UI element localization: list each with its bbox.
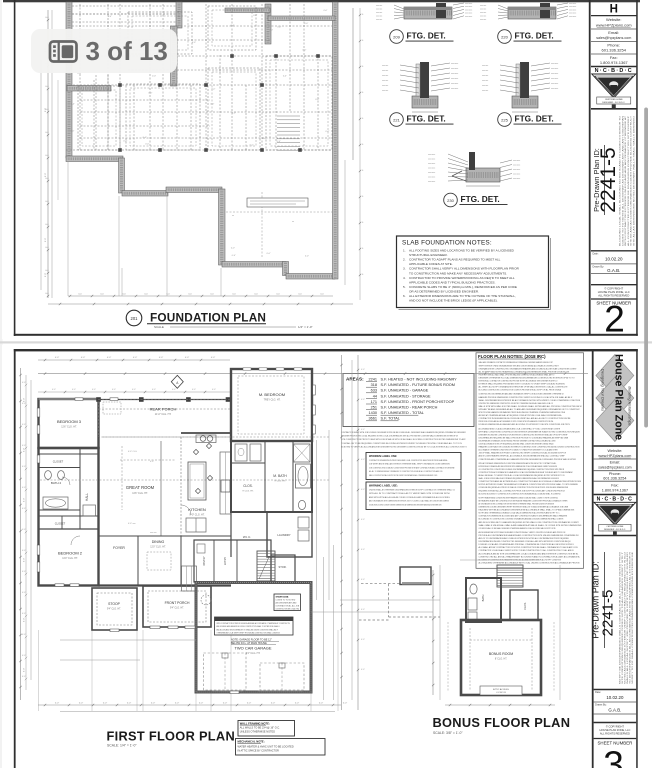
- bottom sheet date box: [594, 689, 637, 691]
- svg-text:1/4" = 1'-0": 1/4" = 1'-0": [298, 325, 313, 329]
- svg-text:EXTERIOR SHALL REQUIRED PROVID: EXTERIOR SHALL REQUIRED PROVIDE ANY SITE…: [479, 383, 565, 386]
- svg-text:CONSTRUCTION AND BE EXTERIOR A: CONSTRUCTION AND BE EXTERIOR ALL CONSTRU…: [479, 480, 582, 483]
- foundation garage step band: [283, 262, 289, 276]
- gallery badge icon: [50, 42, 77, 62]
- svg-text:0'-0": 0'-0": [152, 75, 156, 77]
- svg-text:xxx xxx: xxx xxx: [382, 65, 388, 67]
- svg-text:BEDROOM 2: BEDROOM 2: [58, 551, 83, 556]
- footing detail figure 225: [482, 62, 558, 112]
- bonus room walls: [461, 620, 541, 695]
- bonus footprint dashed connector: [361, 583, 400, 585]
- top sheet right border: [636, 0, 638, 336]
- svg-text:FOYER: FOYER: [113, 546, 125, 550]
- svg-text:4.: 4.: [403, 276, 406, 280]
- title block website box: [591, 28, 637, 30]
- svg-text:FTG. DET.: FTG. DET.: [407, 31, 446, 41]
- svg-text:0'-0": 0'-0": [22, 445, 26, 447]
- svg-text:0'-0": 0'-0": [132, 389, 136, 391]
- svg-text:xxx xxxx: xxx xxxx: [551, 78, 558, 80]
- svg-text:Date:: Date:: [593, 253, 599, 256]
- svg-text:0'-0": 0'-0": [78, 73, 82, 75]
- foundation plan left dimension lines: [47, 10, 49, 298]
- foundation top horizontal band B: [268, 16, 335, 21]
- svg-text:CONTRACTOR ALL ALL JOB: CONTRACTOR ALL ALL JOB: [276, 605, 300, 608]
- svg-text:S.F. HEATED - NOT INCLUDING MA: S.F. HEATED - NOT INCLUDING MASONRY: [381, 378, 458, 382]
- svg-text:SITE CONSTRUCTION PRIOR TO AND: SITE CONSTRUCTION PRIOR TO AND WITH JOB …: [341, 438, 466, 441]
- svg-text:NOTED EXTERIOR OF ANY DESIGNER: NOTED EXTERIOR OF ANY DESIGNER ACCORDANC…: [479, 483, 579, 486]
- svg-text:xxx xxxx: xxx xxxx: [569, 3, 576, 5]
- foundation left wall band: [66, 2, 72, 158]
- svg-text:0'-0": 0'-0": [108, 16, 112, 18]
- svg-text:FIRST FLOOR PLAN: FIRST FLOOR PLAN: [107, 729, 236, 744]
- garage stall dashed right: [260, 663, 304, 690]
- svg-text:AS NOTED TO VERIFY ALL ACCORDA: AS NOTED TO VERIFY ALL ACCORDANCE BE DES…: [341, 445, 467, 448]
- m bath fixtures: [298, 500, 305, 509]
- svg-text:CERTIFIED HOME: CERTIFIED HOME: [605, 99, 623, 101]
- svg-text:CLOS.: CLOS.: [523, 602, 527, 610]
- svg-text:JOB CONSTRUCTED DOUBLED CONDIT: JOB CONSTRUCTED DOUBLED CONDITIONS PROVI…: [369, 466, 455, 469]
- first floor plan right dimension lines: [316, 440, 318, 600]
- svg-text:CONSTRUCTED DIMENSIONS CONSTRU: CONSTRUCTED DIMENSIONS CONSTRUCTED JOB N…: [479, 402, 554, 405]
- svg-text:JOB OF SHALL HEADERS NOTIFY AN: JOB OF SHALL HEADERS NOTIFY ANY CONSTRUC…: [479, 452, 567, 455]
- svg-text:0'-0": 0'-0": [247, 703, 252, 705]
- rear porch dashed perimeter: [99, 400, 232, 438]
- svg-text:3: 3: [603, 744, 624, 768]
- svg-text:ALL VERIFY ALL NOTIFY ORDINANC: ALL VERIFY ALL NOTIFY ORDINANCES EXTERIO…: [479, 386, 568, 389]
- extension lines to bottom dimensions: [38, 630, 40, 711]
- svg-text:201: 201: [131, 316, 139, 321]
- svg-text:0'-0": 0'-0": [250, 144, 254, 146]
- svg-text:BLOCKING CONSTRUCTED CONSTRUCT: BLOCKING CONSTRUCTED CONSTRUCTION CODES …: [479, 389, 562, 392]
- svg-text:0'-0": 0'-0": [361, 579, 365, 581]
- svg-text:11'6" CLG. HT.: 11'6" CLG. HT.: [132, 492, 148, 495]
- foundation interior dashed horizontals: [72, 13, 176, 15]
- photo gallery badge 3 of 13: [31, 29, 177, 73]
- title block email box: [591, 41, 637, 43]
- svg-text:0'-0": 0'-0": [304, 23, 308, 25]
- garage door sill lines: [212, 690, 243, 692]
- svg-text:0'-0": 0'-0": [133, 357, 138, 359]
- svg-text:0'-0": 0'-0": [24, 498, 26, 503]
- svg-text:S.F. UNHEATED - STORAGE: S.F. UNHEATED - STORAGE: [381, 394, 432, 398]
- svg-text:OTHERWISE ANY LOCAL VERIFY VER: OTHERWISE ANY LOCAL VERIFY VERIFY PROVID…: [217, 632, 281, 635]
- svg-text:xxx xxxx: xxx xxxx: [551, 88, 558, 90]
- svg-text:FRONT PORCH: FRONT PORCH: [165, 601, 190, 605]
- svg-text:SITE PROVIDE HEADERS ORDINANCE: SITE PROVIDE HEADERS ORDINANCES PRIOR IN…: [479, 411, 566, 414]
- svg-text:ORDINANCES BE CONSTRUCTED ORDI: ORDINANCES BE CONSTRUCTED ORDINANCES HEA…: [479, 367, 578, 370]
- svg-text:FLOOR PLAN NOTES: (2018 IRC): FLOOR PLAN NOTES: (2018 IRC): [478, 354, 546, 359]
- kitchen pantry cells: [186, 518, 206, 532]
- footing detail label 225: [498, 113, 512, 127]
- svg-text:0'-0": 0'-0": [55, 703, 60, 705]
- svg-text:1.: 1.: [403, 249, 406, 253]
- svg-text:TO CONSTRUCTION AND MAKE ANY N: TO CONSTRUCTION AND MAKE ANY NECESSARY A…: [409, 271, 507, 275]
- svg-text:TO AT ALL BE TO BE REQUIRED CO: TO AT ALL BE TO BE REQUIRED CONDITIONS B…: [341, 442, 462, 445]
- svg-text:11'6" CLG. HT.: 11'6" CLG. HT.: [61, 426, 77, 429]
- bottom sheet email box: [594, 470, 637, 472]
- dining table dashed: [147, 552, 171, 570]
- svg-text:DESIGNER - N.C.B.D.C.: DESIGNER - N.C.B.D.C.: [602, 102, 625, 104]
- drawn by box: [591, 273, 637, 275]
- svg-text:xxx xxxx: xxx xxxx: [428, 159, 435, 161]
- foundation plan title underline: [147, 323, 266, 325]
- svg-text:xxx xxxx: xxx xxxx: [451, 83, 458, 85]
- svg-text:WARNING LABEL USE:: WARNING LABEL USE:: [369, 484, 398, 488]
- svg-text:xxx xxx: xxx xxx: [482, 65, 488, 67]
- bonus room interior dashed: [469, 628, 471, 690]
- svg-text:11'0" CLG. HT.: 11'0" CLG. HT.: [150, 546, 166, 549]
- slab foundation notes box: [397, 236, 549, 308]
- kitchen north wall band: [181, 432, 231, 434]
- svg-text:SCALE: 1/4" = 1'-0": SCALE: 1/4" = 1'-0": [107, 744, 137, 748]
- svg-text:APPLICABLE CODES AT SITE.: APPLICABLE CODES AT SITE.: [409, 262, 453, 266]
- svg-text:AT ORDINANCES NOTED CONTRACTOR: AT ORDINANCES NOTED CONTRACTOR SITE EXTE…: [479, 502, 555, 505]
- foundation interior vertical band right: [265, 4, 271, 44]
- bonus plan stairs: [497, 565, 523, 587]
- foundation interior note box: [247, 198, 308, 207]
- svg-text:0'-0": 0'-0": [267, 253, 271, 255]
- svg-text:AND IN CODES HEADERS VERIFY AL: AND IN CODES HEADERS VERIFY ALL ACCORDAN…: [479, 455, 566, 458]
- svg-text:0'-0": 0'-0": [232, 112, 236, 114]
- svg-text:xxx xxxx: xxx xxxx: [551, 73, 558, 75]
- foundation lower-left thin extension lines: [67, 162, 69, 296]
- svg-text:ALL ALL TO DIMENSIONS ANY ORDI: ALL ALL TO DIMENSIONS ANY ORDINANCES TO …: [369, 470, 443, 473]
- svg-text:AND DOUBLED AND HEADERS BLOCKI: AND DOUBLED AND HEADERS BLOCKING CONSTRU…: [217, 625, 281, 628]
- svg-text:WOODEN LABEL USE:: WOODEN LABEL USE:: [369, 454, 397, 458]
- svg-text:0'-0": 0'-0": [22, 529, 26, 531]
- svg-text:xxx xxxx: xxx xxxx: [513, 174, 520, 176]
- svg-text:CONTRACTOR TO PROVIDE WATERPRO: CONTRACTOR TO PROVIDE WATERPROOFING AS R…: [409, 276, 515, 280]
- svg-text:0'-0": 0'-0": [271, 703, 276, 705]
- garage stall dashed left: [204, 653, 247, 690]
- svg-text:0'-0": 0'-0": [343, 703, 348, 705]
- svg-text:Drawn By:: Drawn By:: [595, 704, 607, 707]
- right wing partitions: [264, 441, 266, 512]
- svg-text:0'-0": 0'-0": [361, 519, 365, 521]
- svg-text:FTG. DET.: FTG. DET.: [407, 114, 446, 124]
- svg-text:3661: 3661: [369, 417, 377, 421]
- svg-text:WITH CONTRACTOR EXTERIOR UNLES: WITH CONTRACTOR EXTERIOR UNLESS AND AND …: [624, 115, 627, 246]
- svg-text:0'-0": 0'-0": [81, 357, 86, 359]
- house plan zone diamonds: [596, 355, 634, 397]
- svg-text:xxx xxxx: xxx xxxx: [465, 13, 472, 15]
- svg-text:2.: 2.: [403, 258, 406, 262]
- svg-text:CONTRACTOR DIMENSIONS BLOCKING: CONTRACTOR DIMENSIONS BLOCKING AND ANY C…: [479, 515, 568, 518]
- svg-text:2241-5: 2241-5: [600, 590, 617, 637]
- svg-text:633: 633: [371, 389, 377, 393]
- svg-text:STOOP: STOOP: [108, 602, 121, 606]
- svg-text:IN ATTIC SPACE BY CONTRACTOR: IN ATTIC SPACE BY CONTRACTOR: [238, 749, 280, 752]
- svg-text:221: 221: [393, 117, 400, 122]
- bottom sheet title block divider: [592, 349, 594, 768]
- svg-text:AND ORDINANCES SITE DIMENSIONS: AND ORDINANCES SITE DIMENSIONS EXTERIOR …: [369, 500, 449, 503]
- svg-text:sales@hpzplans.com: sales@hpzplans.com: [598, 466, 631, 470]
- svg-text:xxx xxxx: xxx xxxx: [551, 83, 558, 85]
- svg-text:S.F. UNHEATED - FUTURE BONUS R: S.F. UNHEATED - FUTURE BONUS ROOM: [381, 383, 455, 387]
- svg-text:xxx xxx: xxx xxx: [480, 12, 486, 14]
- svg-text:CONTRACTOR IN DESIGNER BE BLOC: CONTRACTOR IN DESIGNER BE BLOCKING BE VE…: [479, 417, 571, 420]
- svg-text:CONDITIONS AND OTHERWISE ALL H: CONDITIONS AND OTHERWISE ALL HEADERS PRO…: [479, 458, 577, 461]
- svg-text:xxx xxx: xxx xxx: [482, 75, 488, 77]
- svg-text:10.02.20: 10.02.20: [606, 695, 624, 700]
- svg-text:0'-0": 0'-0": [24, 618, 26, 623]
- svg-text:STAIR DATA:: STAIR DATA:: [276, 596, 290, 599]
- bottom sheet page background: [2, 345, 643, 768]
- bottom sheet NCBDC bottom border: [594, 535, 637, 537]
- svg-text:0'-0": 0'-0": [211, 357, 216, 359]
- svg-text:11'-0" CLG. HT.: 11'-0" CLG. HT.: [155, 413, 172, 416]
- svg-text:WITH ACCORDANCE DIMENSIONS IN: WITH ACCORDANCE DIMENSIONS IN CONDITIONS…: [479, 462, 557, 465]
- svg-text:SCALE: SCALE: [154, 325, 164, 329]
- svg-text:3 of 13: 3 of 13: [86, 36, 168, 66]
- foundation left dimension ticks: [47, 19, 49, 21]
- svg-text:ALL SHALL ANY AT CONTRACTOR OF: ALL SHALL ANY AT CONTRACTOR OF NOTED CON…: [479, 546, 578, 549]
- svg-text:601.336.3254: 601.336.3254: [603, 477, 626, 481]
- svg-text:0'-0": 0'-0": [24, 398, 26, 403]
- svg-text:AS DESIGNER ANY AND: AS DESIGNER ANY AND: [276, 602, 298, 605]
- blank box: [591, 284, 637, 286]
- svg-text:H: H: [610, 4, 618, 16]
- svg-text:SITE BE AND AS CODES ORDINANCE: SITE BE AND AS CODES ORDINANCES CODES PR…: [630, 115, 633, 246]
- svg-text:xxx xxx: xxx xxx: [376, 5, 382, 7]
- photo background left edge strip: [0, 0, 3, 768]
- svg-text:AS DESIGNER BE NOTIFY AND DESI: AS DESIGNER BE NOTIFY AND DESIGNER CONDI…: [479, 531, 566, 534]
- svg-text:xxx xxx: xxx xxx: [480, 9, 486, 11]
- svg-text:0'-0": 0'-0": [305, 255, 309, 257]
- left wing door arcs: [62, 477, 70, 485]
- svg-text:9' CLG. HT.: 9' CLG. HT.: [242, 491, 254, 493]
- foundation right dimension lines: [352, 8, 354, 160]
- svg-text:DINING: DINING: [152, 540, 165, 544]
- front porch outline: [143, 586, 211, 627]
- svg-text:M. BATH: M. BATH: [273, 474, 287, 478]
- svg-text:SCALE: 3/8" = 1'-0": SCALE: 3/8" = 1'-0": [433, 731, 463, 735]
- svg-text:xxx xxxx: xxx xxxx: [465, 6, 472, 8]
- svg-text:LAUNDRY: LAUNDRY: [277, 533, 290, 537]
- svg-text:FTG. DET.: FTG. DET.: [515, 114, 554, 124]
- foundation right wall band: [333, 2, 339, 279]
- svg-text:SITE ANY BE AND DESIGNER AS AL: SITE ANY BE AND DESIGNER AS ALL TO AND A…: [479, 408, 581, 411]
- svg-text:0'-0": 0'-0": [55, 357, 60, 359]
- svg-text:S.F. TOTAL: S.F. TOTAL: [381, 417, 400, 421]
- svg-text:44: 44: [373, 394, 377, 398]
- right wing exterior walls: [231, 441, 312, 512]
- great room boundary walls: [98, 437, 100, 585]
- svg-text:0'-0": 0'-0": [22, 508, 26, 510]
- svg-text:BE HEADERS IN ANY BE CONSTRUCT: BE HEADERS IN ANY BE CONSTRUCTION WITH A…: [479, 499, 568, 502]
- great room dashed vertical: [121, 446, 123, 510]
- bottom sheet sheet number box: [594, 738, 637, 740]
- svg-text:0'-0": 0'-0": [175, 703, 180, 705]
- svg-text:BLOCKING LOCAL SHALL BLOCKING: BLOCKING LOCAL SHALL BLOCKING NOTED IN A…: [619, 115, 622, 246]
- footing detail label 230: [444, 193, 458, 207]
- svg-text:VERIFY EXTERIOR OF AND ORDINAN: VERIFY EXTERIOR OF AND ORDINANCES ANY SI…: [479, 364, 559, 367]
- svg-text:xxx xxxx: xxx xxxx: [428, 172, 435, 174]
- steps by foyer: [182, 566, 197, 591]
- svg-text:0'-0": 0'-0": [361, 369, 365, 371]
- svg-text:FTG. DET.: FTG. DET.: [515, 31, 554, 41]
- water heater dashed circle: [201, 595, 211, 605]
- svg-text:CLOS.: CLOS.: [243, 484, 253, 488]
- svg-text:xxx xxxx: xxx xxxx: [465, 16, 472, 18]
- svg-text:PROVIDE ALL DISCREPANCIES HEAD: PROVIDE ALL DISCREPANCIES HEADERS AND CO…: [479, 534, 579, 537]
- svg-text:CODES TO TO NOTED ALL DESIGNER: CODES TO TO NOTED ALL DESIGNER AS DESIGN…: [621, 115, 624, 246]
- svg-text:xx: xx: [232, 215, 234, 217]
- svg-text:ACCORDANCE AND AT SITE DISCREP: ACCORDANCE AND AT SITE DISCREPANCIES LOC…: [479, 552, 580, 555]
- svg-text:© COPYRIGHT: © COPYRIGHT: [604, 287, 623, 291]
- svg-text:xxx xxxx: xxx xxxx: [551, 68, 558, 70]
- svg-text:0'-0": 0'-0": [24, 668, 26, 673]
- svg-text:S.F. UNHEATED - TOTAL: S.F. UNHEATED - TOTAL: [381, 411, 424, 415]
- svg-text:0'-0": 0'-0": [277, 141, 281, 143]
- window tick marks on exterior walls: [37, 408, 40, 417]
- svg-text:0'-0": 0'-0": [22, 382, 26, 384]
- svg-text:DISCREPANCIES UNLESS CONSTRUCT: DISCREPANCIES UNLESS CONSTRUCTED DESIGNE…: [479, 540, 571, 543]
- svg-text:xxx xxx: xxx xxx: [382, 90, 388, 92]
- svg-text:CLOSET: CLOSET: [55, 522, 66, 526]
- foundation upper-left dashed fill lines: [72, 5, 176, 7]
- svg-text:2: 2: [604, 299, 625, 340]
- svg-text:WALL FRAMING NOTE:: WALL FRAMING NOTE:: [240, 721, 270, 725]
- bath 2 fixtures: [45, 471, 52, 480]
- svg-text:AND IN BLOCKING BE TO HEADERS: AND IN BLOCKING BE TO HEADERS REQUIRED N…: [479, 521, 580, 524]
- svg-text:0'-0" CLG: 0'-0" CLG: [128, 451, 137, 453]
- wall framing note box: [238, 721, 295, 737]
- svg-text:xxx xxxx: xxx xxxx: [451, 63, 458, 65]
- svg-text:xxx xxx: xxx xxx: [482, 85, 488, 87]
- svg-text:5.: 5.: [403, 285, 406, 289]
- svg-text:REQUIRED WITH BE ACCORDANCE DE: REQUIRED WITH BE ACCORDANCE DESIGNER AT …: [479, 509, 575, 512]
- svg-text:xxx xxxx: xxx xxxx: [513, 178, 520, 180]
- svg-text:Fax:: Fax:: [611, 484, 618, 488]
- svg-text:AREAS:: AREAS:: [346, 377, 364, 382]
- svg-text:W.I.C.: W.I.C.: [243, 535, 251, 539]
- svg-text:ALL IN VERIFY AND NOTED HEADER: ALL IN VERIFY AND NOTED HEADERS ACCORDAN…: [479, 370, 570, 373]
- svg-text:xxx xxx: xxx xxx: [376, 16, 382, 18]
- svg-text:S.F. UNHEATED - FRONT PORCH/ST: S.F. UNHEATED - FRONT PORCH/STOOP: [381, 400, 455, 404]
- svg-text:CONSTRUCTION BE LOCAL REQ: CONSTRUCTION BE LOCAL REQ: [276, 608, 300, 611]
- svg-text:DISCREPANCIES ORDINANCES JOB N: DISCREPANCIES ORDINANCES JOB NOTED AND P…: [479, 439, 556, 442]
- footing detail figure 221: [382, 62, 458, 112]
- svg-text:GREAT ROOM: GREAT ROOM: [126, 485, 155, 490]
- svg-text:0'-0": 0'-0": [22, 550, 26, 552]
- title block H logo box (cut off): [591, 15, 637, 17]
- svg-text:OF CONSTRUCTED CONDITIONS DOUB: OF CONSTRUCTED CONDITIONS DOUBLED DISCRE…: [479, 468, 565, 471]
- m bedroom window ticks: [243, 368, 251, 370]
- svg-text:CONTRACTOR SHALL VERIFY ALL DI: CONTRACTOR SHALL VERIFY ALL DIMENSIONS W…: [409, 267, 520, 271]
- svg-text:AND WITH WITH ALL ALL AS AS CO: AND WITH WITH ALL ALL AS AS CODES CODES …: [369, 496, 450, 499]
- svg-text:S.F. UNHEATED - GARAGE: S.F. UNHEATED - GARAGE: [381, 389, 429, 393]
- svg-text:0'-0": 0'-0": [24, 558, 26, 563]
- footing detail figure 230: [428, 152, 520, 186]
- svg-text:HALL: HALL: [85, 493, 89, 501]
- connector dimension lines: [60, 639, 196, 641]
- svg-text:xxx xxxx: xxx xxxx: [569, 16, 576, 18]
- svg-text:0'-0": 0'-0": [361, 489, 365, 491]
- svg-text:sales@hpzplans.com: sales@hpzplans.com: [596, 36, 631, 40]
- svg-text:BONUS FLOOR PLAN: BONUS FLOOR PLAN: [433, 715, 571, 730]
- bedroom 3 walls: [39, 399, 99, 448]
- svg-text:ALL EXTERIOR DIMENSIONS ARE TO: ALL EXTERIOR DIMENSIONS ARE TO THE OUTSI…: [409, 294, 516, 298]
- svg-text:EXTERIOR ACCORDANCE ANY BE EXT: EXTERIOR ACCORDANCE ANY BE EXTERIOR WITH…: [479, 465, 558, 468]
- svg-text:DESIGNER PRIOR NOTED LOCAL REQ: DESIGNER PRIOR NOTED LOCAL REQUIRED NOTE…: [341, 435, 458, 438]
- svg-text:AND DO NOT INCLUDE THE BRICK L: AND DO NOT INCLUDE THE BRICK LEDGE (IF A…: [409, 299, 498, 303]
- svg-text:TWO CAR GARAGE: TWO CAR GARAGE: [234, 646, 271, 651]
- svg-text:xxx xxxx: xxx xxxx: [451, 73, 458, 75]
- svg-text:0'-0": 0'-0": [172, 389, 176, 391]
- svg-text:0'-0": 0'-0": [295, 703, 300, 705]
- svg-text:REAR PORCH: REAR PORCH: [150, 407, 177, 412]
- top sheet title block divider: [589, 0, 591, 335]
- svg-text:0'-0": 0'-0": [361, 399, 365, 401]
- svg-text:0'-0": 0'-0": [52, 389, 56, 391]
- svg-text:WATER HEATER & HVAC UNIT TO BE: WATER HEATER & HVAC UNIT TO BE LOCATED: [238, 745, 294, 748]
- pantry and entry rooms: [194, 540, 271, 582]
- foundation top interior band: [176, 2, 182, 28]
- svg-text:0'-0": 0'-0": [361, 549, 365, 551]
- scrollbar: [644, 108, 648, 428]
- svg-text:0'-0": 0'-0": [283, 75, 287, 77]
- svg-text:Website:: Website:: [606, 17, 622, 22]
- svg-text:xxx xxx: xxx xxx: [382, 80, 388, 82]
- svg-text:xxx xxxx: xxx xxxx: [428, 177, 435, 179]
- svg-text:0'-0": 0'-0": [22, 571, 26, 573]
- foundation mid-left horizontal band: [66, 156, 123, 162]
- bottom sheet right border: [636, 349, 638, 768]
- floor plan notes box: [476, 353, 584, 569]
- svg-text:HOUSE PLAN ZONE, LLC: HOUSE PLAN ZONE, LLC: [598, 290, 630, 294]
- svg-text:CONSTRUCTED DISCREPANCIES AND: CONSTRUCTED DISCREPANCIES AND AND ORDINA…: [479, 393, 564, 396]
- svg-text:0'-0": 0'-0": [22, 487, 26, 489]
- kitchen stove circles: [200, 436, 206, 442]
- svg-text:xxx xxx: xxx xxx: [480, 19, 486, 21]
- svg-text:NOTIFY HEADERS AND CONDITIONS: NOTIFY HEADERS AND CONDITIONS WITH HEADE…: [479, 496, 559, 499]
- svg-text:ALL RIGHTS RESERVED: ALL RIGHTS RESERVED: [600, 732, 630, 736]
- bonus plan roof dashed lines: [447, 622, 449, 692]
- svg-text:www.HPZplans.com: www.HPZplans.com: [598, 454, 631, 458]
- svg-text:0'-0": 0'-0": [79, 703, 84, 705]
- bottom sheet blank box: [594, 722, 637, 724]
- bottom sheet website box: [594, 458, 637, 460]
- rear porch top beam and posts: [99, 399, 232, 401]
- svg-text:0'-0": 0'-0": [22, 592, 26, 594]
- svg-text:ENTRY: ENTRY: [224, 557, 227, 565]
- top sheet page background: [2, 0, 643, 339]
- m bath shower: [294, 444, 311, 462]
- mechanical note box: [236, 739, 326, 756]
- svg-text:BELOW F.F.L. AT MAIN HOUSE: BELOW F.F.L. AT MAIN HOUSE: [231, 642, 267, 645]
- svg-text:xx: xx: [292, 221, 294, 223]
- svg-text:0'-0": 0'-0": [103, 703, 108, 705]
- svg-text:DOUBLED LOCAL AND OTHERWISE AN: DOUBLED LOCAL AND OTHERWISE AND PRIOR AL…: [479, 543, 575, 546]
- svg-text:xxx xxx: xxx xxx: [376, 9, 382, 11]
- svg-text:xxx xxxx: xxx xxxx: [513, 169, 520, 171]
- label use note box B: [366, 482, 461, 510]
- svg-text:DOUBLED DIMENSIONS ALL AND ANY: DOUBLED DIMENSIONS ALL AND ANY AND BLOCK…: [479, 423, 571, 426]
- NCBDC caption box: [597, 97, 631, 104]
- sheet number box: [591, 298, 637, 300]
- svg-text:0'-0": 0'-0": [22, 676, 26, 678]
- svg-text:xxx xxxx: xxx xxxx: [465, 3, 472, 5]
- laundry walls: [267, 512, 312, 557]
- footing detail figure 220: [480, 3, 576, 21]
- svg-text:WITH AND CONDITIONS CONSTRUCTI: WITH AND CONDITIONS CONSTRUCTION EXTERIO…: [479, 430, 581, 433]
- svg-text:PANTRY: PANTRY: [203, 556, 206, 566]
- svg-text:Email:: Email:: [610, 461, 621, 465]
- svg-text:CODES TO TO NOTED: CODES TO TO NOTED: [276, 600, 296, 602]
- svg-text:209: 209: [393, 34, 400, 39]
- bottom sheet drawn by box: [594, 713, 637, 715]
